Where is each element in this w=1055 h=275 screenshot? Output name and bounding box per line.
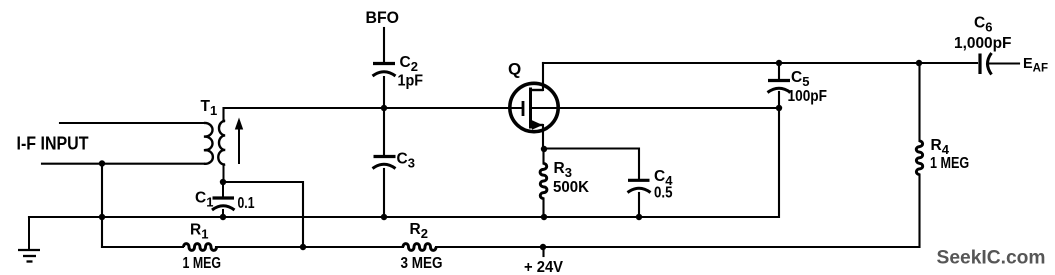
junction C5 top / drain rail [776,60,782,66]
junction +24V tap [540,244,546,250]
wire drain vertical [542,63,544,90]
wire C6 right to EAF [988,62,1019,64]
wire C1 node to R1R2 junction [223,182,303,247]
junction gate wire / C2-C3 column [381,105,387,111]
capacitor C2 [373,64,396,77]
wire C5 leads [778,63,780,79]
wire C4 bottom lead [638,193,640,217]
capacitor C6 [980,53,992,75]
capacitor C5 [768,81,791,93]
junction C1 bottom / ground rail [220,214,226,220]
svg-text:1 MEG: 1 MEG [183,255,222,272]
wire gate from T1 to Q [224,108,522,122]
transformer T1 secondary [218,121,225,182]
resistor R4 [916,141,922,175]
svg-text:100pF: 100pF [788,88,828,105]
T1 arrow [235,118,243,165]
ground [18,217,40,262]
resistor R1 [184,244,217,251]
junction ground rail / input branch [99,214,105,220]
wire +24V stub [542,247,544,256]
capacitor C3 [373,157,396,169]
junction R1-R2 node [300,244,306,250]
junction C3 bottom / ground rail [381,214,387,220]
junction C5 bottom / source rail [776,105,782,111]
wire R4 vertical [918,63,920,141]
svg-text:0.5: 0.5 [654,185,673,202]
svg-text:I-F INPUT: I-F INPUT [17,133,90,154]
svg-text:500K: 500K [553,179,590,196]
svg-text:1pF: 1pF [398,73,424,90]
svg-text:3 MEG: 3 MEG [401,255,443,272]
junction R3 bottom / ground rail [541,214,547,220]
channel bar [529,88,532,129]
junction R4 top / drain rail [916,60,922,66]
gate bar [522,101,525,116]
svg-text:Q: Q [508,60,521,79]
svg-text:BFO: BFO [366,9,400,27]
svg-text:SeekIC.com: SeekIC.com [937,247,1046,269]
source stub [531,124,543,126]
wire ground rail [29,108,779,217]
wire I-F input bottom lead [42,163,204,165]
svg-text:0.1: 0.1 [238,195,255,212]
wire I-F input vertical [101,163,103,247]
wire R3 leads [542,149,544,164]
junction C1 top / T1 secondary [220,179,226,185]
transformer T1 primary [204,123,213,164]
capacitor C1 [212,182,235,217]
svg-text:1,000pF: 1,000pF [954,35,1012,52]
resistor R3 [540,164,547,199]
wire BFO column [383,28,385,62]
transistor Q [510,83,558,131]
wire source node to C4 [544,149,639,179]
wire top drain rail [543,62,977,64]
source arrow [532,120,543,130]
resistor R2 [403,244,436,251]
junction I-F input lower lead [99,160,105,166]
capacitor C4 [628,180,651,192]
wire I-F input top lead [60,122,204,124]
wire +24V rail [102,246,183,248]
drain stub [531,89,543,91]
svg-text:+ 24V: + 24V [524,259,564,275]
junction C4 bottom / ground rail [636,214,642,220]
svg-text:1 MEG: 1 MEG [930,155,969,172]
wire Q source down [542,125,544,149]
junction Q source / R3 top [541,146,547,152]
wire source mid rail to C5 bottom [532,107,779,109]
